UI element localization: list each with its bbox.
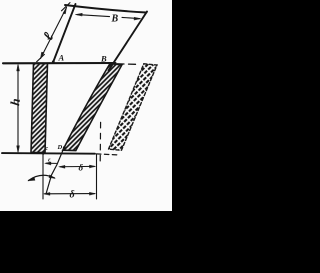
b dim right arrowhead xyxy=(89,192,95,195)
junction blob at corner B xyxy=(113,62,116,65)
arc right arrowhead xyxy=(49,175,55,179)
l-dim top arrowhead xyxy=(63,8,67,14)
s dimension line xyxy=(60,165,95,167)
s dim left arrowhead xyxy=(59,165,65,168)
white paper xyxy=(0,0,172,211)
left extension line xyxy=(42,154,44,200)
black page background xyxy=(0,0,198,273)
dashed vertical projection line xyxy=(99,122,101,162)
slope angle line xyxy=(46,147,65,195)
svg-text:B: B xyxy=(100,54,107,64)
right extension line xyxy=(96,155,98,200)
small left sub-dimension line xyxy=(46,162,57,164)
dashed connector B to far strip xyxy=(117,63,139,66)
s dim right arrowhead xyxy=(89,165,95,168)
middle wall section (hatched slanted strip) xyxy=(63,64,122,151)
B dim right arrowhead xyxy=(134,17,141,20)
svg-text:B: B xyxy=(111,14,119,25)
svg-text:δ: δ xyxy=(79,163,84,173)
svg-text:D: D xyxy=(57,144,63,151)
h dim top arrowhead xyxy=(17,64,20,71)
top face: top edge xyxy=(65,5,147,13)
its arrowhead xyxy=(45,162,51,165)
l-dimension line xyxy=(41,8,67,59)
crest line solid xyxy=(2,152,95,155)
svg-text:A: A xyxy=(58,53,65,63)
h dimension vertical line xyxy=(17,66,19,152)
l-dim bottom arrowhead xyxy=(41,52,45,58)
top face: left edge (A to top-left corner) xyxy=(53,4,76,63)
front top horizontal line A-B xyxy=(3,62,116,64)
svg-text:c: c xyxy=(45,145,48,152)
junction blob at D xyxy=(63,146,66,149)
b dimension line xyxy=(45,193,95,195)
top face: right edge through corner B xyxy=(109,12,148,71)
B dimension line right part xyxy=(122,17,140,18)
junction blob at A xyxy=(52,60,55,63)
arc left arrowhead xyxy=(28,178,35,181)
angle arc xyxy=(29,175,55,180)
b dim left arrowhead xyxy=(44,192,50,195)
h dim bottom arrowhead xyxy=(17,146,20,153)
crest line dashed continuation xyxy=(97,154,121,155)
junction blob at crest-left-ext xyxy=(42,153,44,155)
B dim left arrowhead xyxy=(76,13,83,16)
tick at bottom end xyxy=(37,54,45,61)
tick at top end xyxy=(62,3,71,11)
far wall section (dashed stippled strip) xyxy=(109,64,158,150)
svg-text:δ: δ xyxy=(70,190,75,201)
B dimension line left part xyxy=(77,15,110,17)
left wall section (hatched strip) xyxy=(31,64,48,153)
